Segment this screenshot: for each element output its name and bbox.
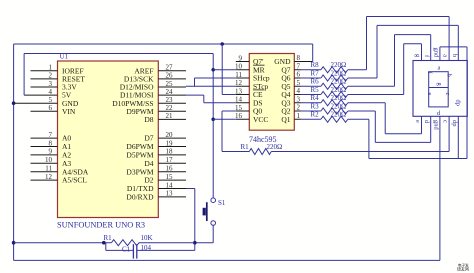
junction U1 pin5 GND — [12, 101, 16, 105]
junction GND top — [220, 42, 224, 46]
U1 pin 5 GND — [14, 102, 58, 104]
U2 pin 7 Q7 — [294, 69, 300, 71]
svg-text:25: 25 — [166, 80, 174, 88]
svg-text:a: a — [442, 54, 449, 57]
svg-text:e: e — [414, 120, 421, 123]
svg-text:R1: R1 — [241, 143, 250, 151]
svg-text:10: 10 — [235, 63, 243, 71]
svg-text:SUNFOUNDER UNO R3: SUNFOUNDER UNO R3 — [57, 221, 145, 230]
U2 pin 12 STcp — [236, 85, 250, 87]
U2 pin 10 MR — [236, 69, 250, 71]
svg-text:18: 18 — [166, 148, 174, 156]
svg-text:8: 8 — [49, 139, 53, 147]
wire D11 to DS jog — [186, 94, 204, 96]
svg-text:220Ω: 220Ω — [267, 143, 283, 151]
wire U2 pin8 GND drop — [312, 44, 314, 62]
svg-text:9: 9 — [49, 148, 53, 156]
U1 pin 2 RESET — [31, 78, 58, 80]
svg-text:dp: dp — [455, 100, 462, 107]
svg-text:R8: R8 — [311, 61, 320, 69]
resistor R7 220ohm — [301, 77, 321, 79]
svg-text:220Ω: 220Ω — [331, 86, 347, 94]
wire segment g loop — [404, 43, 422, 45]
svg-text:11: 11 — [45, 165, 52, 173]
svg-text:D8: D8 — [144, 115, 153, 124]
U2 pin 5 Q5 — [294, 85, 300, 87]
chip U1 SUNFOUNDER UNO R3 body — [58, 61, 159, 218]
svg-text:14: 14 — [235, 96, 243, 104]
svg-text:3: 3 — [49, 80, 53, 88]
svg-text:C1: C1 — [122, 245, 131, 253]
svg-text:220Ω: 220Ω — [331, 69, 347, 77]
U2 pin 13 CE — [236, 94, 250, 96]
svg-text:7: 7 — [49, 131, 53, 139]
svg-text:16: 16 — [166, 165, 174, 173]
svg-text:VCC: VCC — [253, 115, 268, 124]
U1 pin 1 IOREF — [31, 70, 58, 72]
wire GND left frame vertical — [13, 44, 15, 260]
svg-text:6: 6 — [297, 71, 301, 79]
wire SHcp line — [195, 77, 236, 79]
wire 5V top horizontal — [24, 53, 213, 55]
resistor R1 220ohm from Q0 — [222, 110, 236, 112]
svg-text:2: 2 — [297, 104, 301, 112]
svg-text:220Ω: 220Ω — [331, 102, 347, 110]
junction U2 MR 5V — [211, 68, 215, 72]
wire segment dp loop — [368, 119, 370, 158]
U1 pin 21 D8 — [158, 118, 186, 120]
svg-text:R1: R1 — [104, 234, 113, 242]
switch S1 push button — [211, 198, 216, 203]
svg-text:c: c — [444, 93, 451, 96]
svg-text:22: 22 — [166, 104, 174, 112]
svg-text:17: 17 — [166, 156, 174, 164]
resistor R1 10K — [14, 242, 112, 244]
shift register U2 74hc595 body — [249, 54, 294, 131]
wire S1 bottom to junction — [212, 225, 214, 243]
wire 5V riser from U1 pin4 — [23, 54, 25, 96]
svg-text:20: 20 — [166, 131, 174, 139]
wire GND top rail from U1 pin5 frame to U2 pin8 — [14, 43, 313, 45]
U1 pin 18 D5PWM — [158, 154, 186, 156]
svg-text:R2: R2 — [311, 111, 320, 119]
svg-text:a: a — [438, 64, 441, 71]
svg-text:19: 19 — [166, 139, 174, 147]
U1 pin 24 D11/MOSI — [158, 94, 186, 96]
U1 pin 26 D13/SCK — [158, 78, 186, 80]
svg-text:S1: S1 — [218, 199, 226, 207]
svg-text:R4: R4 — [311, 94, 320, 102]
svg-text:10K: 10K — [141, 234, 153, 242]
U1 pin 9 A2 — [31, 154, 58, 156]
svg-text:Q1: Q1 — [281, 115, 290, 124]
svg-text:13: 13 — [166, 190, 174, 198]
U1 pin 12 A5/SCL — [31, 179, 58, 181]
wire CE to GND vertical — [221, 44, 223, 95]
svg-text:8: 8 — [297, 54, 301, 62]
svg-text:A5/SCL: A5/SCL — [62, 176, 87, 185]
junction S1/R1/C1 node — [193, 241, 197, 245]
svg-text:dp: dp — [451, 120, 458, 127]
svg-text:6: 6 — [49, 104, 53, 112]
svg-text:R3: R3 — [311, 102, 320, 110]
display DS1 body — [413, 61, 467, 117]
svg-text:e: e — [426, 93, 433, 96]
wire GND bottom rail — [14, 259, 440, 261]
svg-text:21: 21 — [166, 112, 174, 120]
svg-text:R6: R6 — [311, 78, 320, 86]
svg-text:12: 12 — [45, 173, 53, 181]
wire segment b loop — [377, 24, 458, 26]
U2 pin 11 SHcp — [236, 77, 250, 79]
wire display top gnd — [439, 47, 441, 61]
wire segment e loop — [384, 103, 386, 134]
resistor R4 220ohm — [301, 102, 321, 104]
svg-text:1: 1 — [49, 64, 53, 72]
U1 pin 10 A3 — [31, 162, 58, 164]
svg-text:10: 10 — [45, 156, 53, 164]
svg-text:13: 13 — [235, 87, 243, 95]
U1 pin 3 3.3V — [31, 86, 58, 88]
svg-text:220Ω: 220Ω — [331, 61, 347, 69]
svg-text:104: 104 — [141, 244, 152, 252]
U1 pin 7 A0 — [31, 137, 58, 139]
svg-text:b: b — [451, 54, 458, 57]
U2 pin 4 Q4 — [294, 94, 300, 96]
U1 pin 23 D10PWM/SS — [158, 102, 186, 104]
svg-text:16: 16 — [235, 112, 243, 120]
wire CE extension — [222, 94, 236, 96]
wire 5V vertical to switch — [212, 54, 214, 199]
resistor R6 220ohm — [301, 85, 321, 87]
resistor R8 220ohm — [301, 69, 321, 71]
U1 pin 25 D12/MISO — [158, 86, 186, 88]
U2 pin 2 Q2 — [294, 110, 300, 112]
svg-text:gnd: gnd — [432, 47, 439, 58]
U1 pin 15 D2 — [158, 179, 186, 181]
svg-text:26: 26 — [166, 72, 174, 80]
svg-text:VIN: VIN — [62, 107, 76, 116]
wire STcp line from D12 — [186, 85, 236, 87]
U1 pin 16 D3PWM — [158, 171, 186, 173]
U2 pin 6 Q6 — [294, 77, 300, 79]
svg-text:15: 15 — [235, 104, 243, 112]
svg-text:27: 27 — [166, 64, 174, 72]
U2 pin 1 Q1 — [294, 118, 300, 120]
U1 pin 4 5V — [24, 94, 57, 96]
resistor R3 220ohm — [301, 110, 321, 112]
U1 pin 8 A1 — [31, 146, 58, 148]
svg-text:3: 3 — [297, 95, 301, 103]
U2 pin 3 Q3 — [294, 102, 300, 104]
svg-text:c: c — [442, 120, 449, 123]
junction U2 VCC 5V — [211, 117, 215, 121]
U1 pin 27 AREF — [158, 70, 186, 72]
U1 pin 6 VIN — [31, 110, 58, 112]
svg-text:11: 11 — [235, 71, 242, 79]
wire segment c drop — [448, 116, 450, 151]
svg-text:b: b — [446, 74, 453, 77]
wire segment f loop — [395, 34, 431, 36]
wire SHcp-STcp vertical — [194, 78, 196, 86]
svg-text:24: 24 — [166, 88, 174, 96]
wire display bottom gnd to rail — [439, 116, 441, 260]
svg-text:9: 9 — [239, 54, 243, 62]
resistor R5 220ohm — [301, 94, 321, 96]
U2 pin 15 Q0 — [236, 110, 250, 112]
svg-text:R5: R5 — [311, 86, 320, 94]
U1 pin 22 D9PWM — [158, 110, 186, 112]
wire segment a loop — [367, 16, 450, 18]
resistor R2 220ohm — [301, 118, 321, 120]
svg-text:1: 1 — [297, 112, 301, 120]
U1 pin 19 D6PWM — [158, 146, 186, 148]
U2 pin 9 Q7' — [236, 61, 250, 63]
svg-text:4: 4 — [49, 88, 53, 96]
svg-text:7: 7 — [297, 62, 301, 70]
U2 pin 16 VCC — [236, 118, 250, 120]
svg-text:12: 12 — [235, 79, 243, 87]
svg-text:220Ω: 220Ω — [331, 78, 347, 86]
U2 pin 8 GND — [294, 61, 312, 63]
wire VCC extension — [213, 118, 236, 120]
svg-text:14: 14 — [166, 181, 174, 189]
capacitor C1 104 — [105, 243, 107, 251]
svg-text:23: 23 — [166, 96, 174, 104]
svg-text:2: 2 — [49, 72, 53, 80]
U1 pin 13 D0/RXD — [158, 196, 186, 198]
wire segment d loop — [374, 111, 376, 142]
svg-text:15: 15 — [166, 173, 174, 181]
svg-text:4: 4 — [297, 87, 301, 95]
junction GND R1 branch — [12, 241, 16, 245]
svg-text:5: 5 — [49, 96, 53, 104]
U1 pin 14 D1/TXD — [158, 188, 186, 190]
svg-text:R7: R7 — [311, 69, 320, 77]
display digit outline — [429, 72, 449, 107]
U1 pin 11 A4/SDA — [31, 171, 58, 173]
svg-text:D0/RXD: D0/RXD — [126, 193, 154, 202]
wire D1/TXD to junction vertical — [186, 188, 195, 190]
svg-text:烧友网: 烧友网 — [457, 265, 469, 271]
wire MR extension — [213, 69, 236, 71]
svg-text:220Ω: 220Ω — [331, 94, 347, 102]
svg-text:gnd: gnd — [432, 120, 439, 131]
U2 pin 14 DS — [236, 102, 250, 104]
U1 pin 20 D7 — [158, 137, 186, 139]
svg-text:220Ω: 220Ω — [331, 111, 347, 119]
U1 pin 17 D4 — [158, 162, 186, 164]
svg-text:5: 5 — [297, 79, 301, 87]
